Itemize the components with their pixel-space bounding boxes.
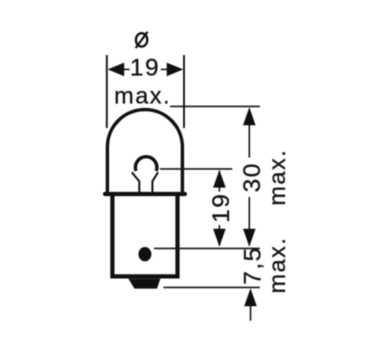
diameter dimension line with arrows xyxy=(108,63,184,77)
dimension text 7,5 (vertical) xyxy=(239,246,266,285)
filament support wire right xyxy=(152,172,158,192)
7,5 dimension arrow (below contact plane) xyxy=(244,288,257,320)
dimension text 30 (vertical) xyxy=(239,158,266,198)
svg-text:19: 19 xyxy=(208,193,235,223)
extension line right (diameter dimension) xyxy=(183,55,185,128)
dimension text 19 (vertical) xyxy=(208,192,235,226)
dimension text 19 (diameter) xyxy=(130,55,160,82)
diameter symbol xyxy=(136,32,148,48)
svg-text:7,5: 7,5 xyxy=(239,246,266,285)
filament arch xyxy=(135,157,157,171)
filament support wire left xyxy=(132,172,140,192)
leader line from bayonet pin (reference plane) xyxy=(154,247,260,249)
svg-text:max.: max. xyxy=(264,237,290,294)
svg-text:30: 30 xyxy=(239,162,266,192)
dimension text max. (vertical, for 30) xyxy=(264,149,290,206)
svg-text:max.: max. xyxy=(264,149,290,206)
30 dimension line with arrows xyxy=(243,107,256,246)
leader line from filament to 19 dimension xyxy=(160,168,232,170)
bulb glass envelope xyxy=(107,110,182,194)
bayonet pin (dot) xyxy=(138,247,151,261)
svg-text:max.: max. xyxy=(114,83,171,109)
metal bayonet base xyxy=(112,195,177,276)
glass / base junction line xyxy=(105,192,185,196)
svg-text:19: 19 xyxy=(130,55,160,82)
extension line left (diameter dimension) xyxy=(106,55,108,128)
19 dimension line with arrows (glass length) xyxy=(213,170,226,247)
leader line from bulb top (max height plane) xyxy=(170,105,260,107)
dimension text max. (diameter) xyxy=(114,83,171,109)
bottom contact tip xyxy=(128,279,160,289)
leader line from contact tip bottom xyxy=(164,286,260,288)
dimension text max. (vertical, for 7,5) xyxy=(264,237,290,294)
